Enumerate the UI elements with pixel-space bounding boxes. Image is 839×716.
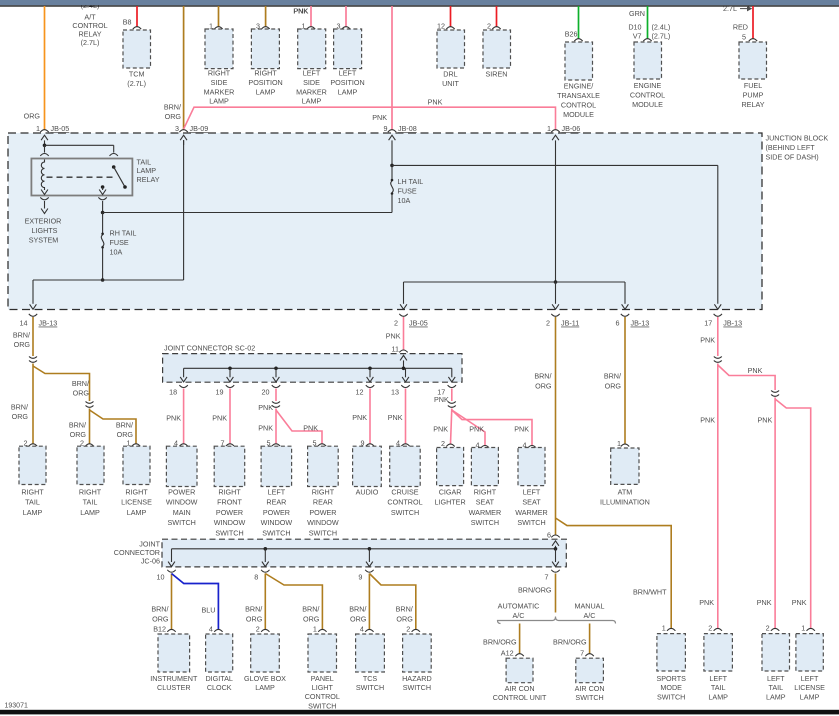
svg-text:A/C: A/C bbox=[584, 611, 596, 620]
wire GRN to engine/transaxle control module bbox=[565, 6, 579, 39]
wire BRN/ORG to instrument cluster bbox=[151, 574, 171, 630]
wire BRN/ORG tail lamp tree bbox=[11, 364, 90, 444]
junction block label bbox=[766, 134, 829, 162]
svg-text:PNK: PNK bbox=[294, 7, 309, 16]
siren box bbox=[483, 22, 511, 68]
SC-02 internal bus bbox=[184, 367, 452, 371]
svg-text:MARKER: MARKER bbox=[204, 87, 235, 96]
svg-text:TAIL: TAIL bbox=[25, 498, 40, 507]
wire PNK to left side marker lamp bbox=[293, 6, 311, 27]
engine control module box bbox=[634, 39, 662, 79]
svg-text:1: 1 bbox=[313, 624, 317, 633]
wire BRN/ORG from 6 JB-13 to ATM illumination bbox=[604, 317, 625, 444]
svg-text:ORG: ORG bbox=[246, 614, 263, 623]
svg-text:ORG: ORG bbox=[303, 614, 320, 623]
svg-text:JB-13: JB-13 bbox=[723, 319, 742, 328]
svg-text:LIGHT: LIGHT bbox=[312, 683, 334, 692]
wire PNK to left position lamp bbox=[345, 6, 347, 27]
relay dashed link bbox=[47, 176, 115, 178]
svg-text:2: 2 bbox=[256, 624, 260, 633]
svg-text:INSTRUMENT: INSTRUMENT bbox=[150, 674, 198, 683]
svg-text:PNK: PNK bbox=[166, 414, 181, 423]
exit 6 JB-13 bbox=[616, 304, 650, 327]
svg-text:RIGHT: RIGHT bbox=[21, 488, 44, 497]
svg-text:CONTROL: CONTROL bbox=[387, 498, 422, 507]
svg-text:ORG: ORG bbox=[350, 614, 367, 623]
wire PNK to right front power window switch bbox=[212, 389, 230, 444]
JC-06 output 9 bbox=[358, 549, 373, 582]
wire RED to TCM pin B8 bbox=[123, 6, 137, 27]
svg-text:AIR CON: AIR CON bbox=[575, 684, 605, 693]
right license lamp box bbox=[123, 439, 150, 485]
node 3 JB-09 bbox=[175, 124, 208, 145]
hazard switch box bbox=[403, 624, 432, 672]
svg-text:LICENSE: LICENSE bbox=[121, 498, 152, 507]
svg-text:JB-05: JB-05 bbox=[409, 319, 428, 328]
svg-text:(2.7L): (2.7L) bbox=[127, 79, 146, 88]
svg-text:PUMP: PUMP bbox=[743, 90, 764, 99]
svg-text:SWITCH: SWITCH bbox=[391, 508, 419, 517]
right tail lamp box 2 bbox=[77, 439, 104, 485]
svg-text:PNK: PNK bbox=[699, 598, 714, 607]
svg-text:POWER: POWER bbox=[168, 488, 195, 497]
svg-text:DIGITAL: DIGITAL bbox=[205, 674, 232, 683]
svg-text:ORG: ORG bbox=[117, 430, 134, 439]
wire PNK cigar lighter / seat warmer tree bbox=[433, 409, 532, 446]
svg-text:CONTROL: CONTROL bbox=[305, 692, 340, 701]
svg-text:JB-05: JB-05 bbox=[51, 124, 70, 133]
junction node to exits bbox=[33, 140, 184, 304]
right side marker lamp box bbox=[205, 22, 233, 69]
inline connector C4 bbox=[448, 402, 456, 404]
automatic / manual A/C labels bbox=[498, 602, 605, 621]
svg-text:BRN/ORG: BRN/ORG bbox=[518, 585, 552, 594]
svg-text:REAR: REAR bbox=[313, 498, 333, 507]
svg-text:BLU: BLU bbox=[202, 605, 216, 614]
svg-text:PNK: PNK bbox=[303, 423, 318, 432]
svg-text:LEFT: LEFT bbox=[268, 488, 286, 497]
svg-text:1: 1 bbox=[801, 623, 805, 632]
svg-text:(2.7L): (2.7L) bbox=[81, 38, 100, 47]
svg-text:ORG: ORG bbox=[70, 430, 87, 439]
svg-text:GLOVE BOX: GLOVE BOX bbox=[244, 674, 286, 683]
svg-text:SIREN: SIREN bbox=[486, 70, 508, 79]
svg-text:ORG: ORG bbox=[14, 340, 31, 349]
svg-text:PNK: PNK bbox=[433, 424, 448, 433]
svg-text:SEAT: SEAT bbox=[522, 498, 541, 507]
svg-text:8: 8 bbox=[254, 572, 258, 581]
tail lamp relay box bbox=[31, 159, 132, 196]
svg-text:SWITCH: SWITCH bbox=[168, 518, 196, 527]
right front power window switch box bbox=[214, 439, 245, 487]
svg-text:B26: B26 bbox=[565, 29, 578, 38]
LH tail fuse 10A bbox=[391, 177, 424, 213]
svg-text:LAMP: LAMP bbox=[338, 87, 358, 96]
svg-text:LAMP: LAMP bbox=[137, 166, 157, 175]
svg-text:DRL: DRL bbox=[443, 70, 457, 79]
svg-text:12: 12 bbox=[356, 387, 364, 396]
svg-text:PNK: PNK bbox=[434, 395, 449, 404]
left side marker lamp box bbox=[298, 22, 326, 69]
svg-text:LAMP: LAMP bbox=[80, 508, 100, 517]
JB-06 internal bus bbox=[404, 280, 626, 304]
svg-text:PNK: PNK bbox=[792, 598, 807, 607]
svg-text:9: 9 bbox=[384, 124, 388, 133]
JC-06 output 8 bbox=[254, 549, 269, 582]
exit 2 JB-11 bbox=[546, 304, 579, 327]
SC-02 output 18 bbox=[169, 368, 188, 396]
svg-text:LAMP: LAMP bbox=[255, 683, 275, 692]
left position lamp box bbox=[334, 22, 362, 69]
svg-text:PNK: PNK bbox=[757, 598, 772, 607]
svg-text:RIGHT: RIGHT bbox=[254, 69, 277, 78]
wire BRN/ORG to glove box lamp bbox=[245, 574, 265, 630]
svg-text:SIDE OF DASH): SIDE OF DASH) bbox=[766, 153, 819, 162]
svg-text:9: 9 bbox=[358, 572, 362, 581]
svg-text:PNK: PNK bbox=[388, 413, 403, 422]
svg-text:SWITCH: SWITCH bbox=[403, 683, 431, 692]
svg-text:PNK: PNK bbox=[352, 413, 367, 422]
svg-text:CLUSTER: CLUSTER bbox=[157, 683, 191, 692]
svg-text:(BEHIND LEFT: (BEHIND LEFT bbox=[766, 143, 816, 152]
svg-text:LAMP: LAMP bbox=[800, 692, 820, 701]
svg-text:1: 1 bbox=[36, 124, 40, 133]
wire BRN/WHT to sports mode switch bbox=[556, 518, 672, 628]
svg-text:TAIL: TAIL bbox=[768, 683, 783, 692]
svg-text:LAMP: LAMP bbox=[23, 508, 43, 517]
svg-text:SEAT: SEAT bbox=[476, 498, 495, 507]
relay switch contact bbox=[112, 165, 127, 189]
svg-text:LEFT: LEFT bbox=[339, 69, 357, 78]
svg-text:RELAY: RELAY bbox=[741, 100, 764, 109]
TCM connector box bbox=[123, 27, 151, 68]
svg-text:LH TAIL: LH TAIL bbox=[398, 177, 424, 186]
inline connector C2 bbox=[86, 402, 94, 404]
svg-text:6: 6 bbox=[616, 319, 620, 328]
svg-text:TAIL: TAIL bbox=[83, 498, 98, 507]
svg-text:ORG: ORG bbox=[165, 112, 182, 121]
svg-text:RIGHT: RIGHT bbox=[125, 488, 148, 497]
svg-text:ATM: ATM bbox=[618, 488, 633, 497]
svg-text:PNK: PNK bbox=[748, 366, 763, 375]
A/T CONTROL RELAY label bbox=[72, 1, 107, 47]
svg-text:3: 3 bbox=[175, 124, 179, 133]
right rear power window switch box bbox=[308, 439, 339, 487]
svg-text:1: 1 bbox=[547, 124, 551, 133]
wire PNK to rear power window switches bbox=[258, 409, 322, 444]
svg-text:ORG: ORG bbox=[396, 614, 413, 623]
svg-text:MODE: MODE bbox=[660, 683, 682, 692]
wire BRN/ORG to TCS switch bbox=[349, 574, 369, 630]
svg-text:2: 2 bbox=[546, 319, 550, 328]
svg-text:MODULE: MODULE bbox=[632, 100, 663, 109]
svg-text:CLOCK: CLOCK bbox=[207, 683, 232, 692]
svg-text:BRN/: BRN/ bbox=[11, 402, 28, 411]
svg-text:SIDE: SIDE bbox=[211, 78, 228, 87]
svg-text:LEFT: LEFT bbox=[801, 674, 819, 683]
svg-text:B8: B8 bbox=[123, 17, 132, 26]
svg-text:A12: A12 bbox=[501, 649, 514, 658]
inline connector C1 bbox=[29, 357, 37, 359]
left rear power window switch box bbox=[261, 439, 292, 487]
wire PNK to cruise control switch bbox=[388, 389, 406, 444]
svg-text:2: 2 bbox=[394, 319, 398, 328]
relay output pin bbox=[99, 185, 106, 194]
svg-text:2: 2 bbox=[487, 22, 491, 31]
svg-text:PNK: PNK bbox=[514, 424, 529, 433]
svg-text:LAMP: LAMP bbox=[302, 97, 322, 106]
svg-text:LAMP: LAMP bbox=[256, 87, 276, 96]
svg-text:RIGHT: RIGHT bbox=[218, 488, 241, 497]
JC-06 pin 6 entry bbox=[547, 531, 560, 549]
svg-text:ORG: ORG bbox=[24, 112, 41, 121]
svg-text:CIGAR: CIGAR bbox=[439, 488, 462, 497]
exit 17 JB-13 bbox=[704, 304, 742, 327]
wire PNK left tail lamp tree B bbox=[757, 398, 811, 629]
svg-text:13: 13 bbox=[391, 387, 399, 396]
svg-text:10: 10 bbox=[157, 572, 165, 581]
svg-text:POWER: POWER bbox=[216, 508, 243, 517]
svg-text:SYSTEM: SYSTEM bbox=[29, 235, 59, 244]
svg-text:2.7L: 2.7L bbox=[723, 4, 737, 13]
air con control unit box bbox=[501, 649, 533, 683]
left seat warmer switch box bbox=[518, 440, 545, 485]
svg-text:17: 17 bbox=[704, 319, 712, 328]
svg-text:BRN/: BRN/ bbox=[302, 604, 319, 613]
svg-text:JB-06: JB-06 bbox=[562, 124, 581, 133]
svg-text:6: 6 bbox=[547, 531, 551, 540]
svg-text:SIDE: SIDE bbox=[303, 78, 320, 87]
svg-text:5: 5 bbox=[742, 32, 746, 41]
svg-text:1: 1 bbox=[617, 439, 621, 448]
JC-06 output 7 bbox=[545, 549, 560, 582]
svg-text:PNK: PNK bbox=[258, 423, 273, 432]
svg-text:POWER: POWER bbox=[263, 508, 290, 517]
svg-text:LEFT: LEFT bbox=[767, 674, 785, 683]
joint connector JC-06 box bbox=[114, 539, 567, 567]
svg-text:LAMP: LAMP bbox=[708, 692, 728, 701]
svg-text:B12: B12 bbox=[153, 624, 166, 633]
digital clock box bbox=[206, 624, 233, 672]
top title bar bbox=[0, 0, 839, 5]
wire BRN/ORG from JC-06 pin 7 bbox=[518, 574, 556, 613]
svg-text:(2.4L): (2.4L) bbox=[652, 22, 671, 31]
left license lamp box bbox=[796, 623, 823, 671]
svg-text:BRN/: BRN/ bbox=[164, 103, 181, 112]
wire PNK left tail lamp tree A bbox=[699, 364, 775, 629]
relay switch output node bbox=[98, 197, 392, 233]
right tail lamp box 1 bbox=[19, 439, 46, 485]
svg-text:FUSE: FUSE bbox=[110, 238, 129, 247]
svg-text:POWER: POWER bbox=[309, 508, 336, 517]
svg-text:PNK: PNK bbox=[258, 403, 273, 412]
svg-text:BRN/: BRN/ bbox=[245, 604, 262, 613]
node JB-05 internal junction bbox=[40, 144, 118, 156]
wire BRN/ORG from 14 JB-13 bbox=[13, 317, 33, 356]
wire to 17 JB-13 exit bbox=[717, 165, 719, 303]
svg-text:JB-13: JB-13 bbox=[631, 319, 650, 328]
wire PNK from 2 JB-05 to SC-02 pin 11 bbox=[386, 317, 404, 353]
svg-text:4: 4 bbox=[360, 624, 364, 633]
svg-text:JB-13: JB-13 bbox=[39, 319, 58, 328]
svg-text:CONTROL UNIT: CONTROL UNIT bbox=[493, 693, 547, 702]
svg-text:LAMP: LAMP bbox=[766, 692, 786, 701]
svg-text:REAR: REAR bbox=[266, 498, 286, 507]
svg-text:20: 20 bbox=[262, 387, 270, 396]
wire BRN/ORG to air con switch bbox=[553, 624, 590, 654]
wire PNK bus from JB-09 to JB-06 bbox=[184, 7, 556, 131]
svg-text:18: 18 bbox=[169, 387, 177, 396]
wire BRN/ORG to hazard switch bbox=[369, 574, 415, 630]
exit 14 JB-13 bbox=[20, 304, 58, 327]
svg-text:MODULE: MODULE bbox=[563, 110, 594, 119]
wire BLU to digital clock bbox=[172, 574, 219, 630]
svg-text:AUTOMATIC: AUTOMATIC bbox=[498, 602, 540, 611]
svg-text:LAMP: LAMP bbox=[127, 508, 147, 517]
svg-text:RIGHT: RIGHT bbox=[312, 488, 335, 497]
svg-text:SWITCH: SWITCH bbox=[471, 518, 499, 527]
svg-text:193071: 193071 bbox=[5, 703, 28, 710]
svg-text:CONTROL: CONTROL bbox=[561, 101, 596, 110]
svg-text:LIGHTS: LIGHTS bbox=[32, 226, 58, 235]
SC-02 output 20 bbox=[262, 368, 281, 396]
left tail lamp box 1 bbox=[704, 623, 733, 671]
svg-text:BRN/WHT: BRN/WHT bbox=[633, 587, 667, 596]
svg-text:10A: 10A bbox=[398, 196, 411, 205]
svg-text:ORG: ORG bbox=[535, 381, 552, 390]
svg-text:UNIT: UNIT bbox=[442, 79, 459, 88]
svg-text:TCM: TCM bbox=[129, 70, 145, 79]
panel light control switch box bbox=[308, 624, 337, 672]
joint connector SC-02 box bbox=[163, 344, 462, 383]
svg-text:ENGINE: ENGINE bbox=[634, 81, 662, 90]
svg-text:(2.7L): (2.7L) bbox=[652, 32, 671, 41]
svg-text:EXTERIOR: EXTERIOR bbox=[25, 216, 62, 225]
svg-text:PNK: PNK bbox=[212, 414, 227, 423]
svg-text:MANUAL: MANUAL bbox=[575, 602, 605, 611]
JC-06 output 10 bbox=[157, 549, 176, 582]
svg-text:BRN/: BRN/ bbox=[116, 420, 133, 429]
wire GRN to engine control module bbox=[628, 6, 670, 41]
svg-text:2: 2 bbox=[766, 623, 770, 632]
svg-text:WARMER: WARMER bbox=[515, 508, 547, 517]
node 1 JB-05 bbox=[36, 124, 69, 145]
svg-text:2: 2 bbox=[406, 624, 410, 633]
svg-text:CONTROL: CONTROL bbox=[630, 90, 665, 99]
inline connector C3 bbox=[272, 402, 280, 404]
inline connector C6 bbox=[771, 391, 779, 393]
wire PNK pin 20 upper bbox=[258, 389, 276, 412]
power window main switch box bbox=[166, 439, 197, 487]
svg-text:LEFT: LEFT bbox=[709, 674, 727, 683]
svg-text:LIGHTER: LIGHTER bbox=[435, 498, 466, 507]
inline connector C5 bbox=[714, 357, 722, 359]
svg-text:LEFT: LEFT bbox=[523, 488, 541, 497]
svg-text:BRN/ORG: BRN/ORG bbox=[553, 637, 587, 646]
svg-text:FRONT: FRONT bbox=[217, 498, 242, 507]
svg-text:RED: RED bbox=[733, 22, 748, 31]
svg-text:LAMP: LAMP bbox=[209, 97, 229, 106]
svg-text:MARKER: MARKER bbox=[296, 87, 327, 96]
svg-text:BRN/: BRN/ bbox=[69, 420, 86, 429]
svg-text:WINDOW: WINDOW bbox=[166, 498, 198, 507]
wire PNK to JB-08 bbox=[372, 6, 392, 130]
svg-text:TRANSAXLE: TRANSAXLE bbox=[557, 91, 600, 100]
svg-text:BRN/: BRN/ bbox=[13, 330, 30, 339]
wire PNK pin 17 upper bbox=[434, 389, 452, 404]
svg-text:19: 19 bbox=[216, 387, 224, 396]
svg-text:A/C: A/C bbox=[513, 611, 525, 620]
svg-text:HAZARD: HAZARD bbox=[402, 674, 432, 683]
wire BRN to right side marker lamp bbox=[218, 6, 220, 27]
svg-text:PNK: PNK bbox=[469, 424, 484, 433]
wire PNK to power window main switch bbox=[166, 389, 183, 444]
svg-text:11: 11 bbox=[392, 344, 399, 353]
junction block (behind left side of dash) bbox=[8, 133, 762, 310]
relay coil bbox=[41, 160, 48, 195]
svg-text:POSITION: POSITION bbox=[248, 78, 282, 87]
svg-text:JOINT CONNECTOR SC-02: JOINT CONNECTOR SC-02 bbox=[164, 344, 255, 353]
wire RED to DRL unit bbox=[450, 6, 452, 27]
right position lamp box bbox=[251, 22, 279, 69]
A/C option bracket bbox=[498, 617, 616, 624]
SC-02 output 12 bbox=[356, 368, 375, 396]
svg-text:4: 4 bbox=[209, 624, 213, 633]
wire BRN to right position lamp bbox=[265, 6, 267, 27]
svg-text:SWITCH: SWITCH bbox=[356, 683, 384, 692]
SC-02 pin 11 entry bbox=[399, 350, 407, 368]
wire PNK to audio bbox=[352, 389, 370, 444]
svg-text:10A: 10A bbox=[110, 247, 123, 256]
svg-text:CRUISE: CRUISE bbox=[391, 488, 418, 497]
svg-text:RIGHT: RIGHT bbox=[79, 488, 102, 497]
svg-text:RIGHT: RIGHT bbox=[208, 69, 231, 78]
svg-text:BRN/: BRN/ bbox=[396, 604, 413, 613]
svg-text:2: 2 bbox=[441, 439, 445, 448]
bottom rule bar bbox=[0, 710, 839, 715]
wire BRN/ORG to JB-09 bbox=[164, 6, 184, 130]
svg-text:PNK: PNK bbox=[758, 415, 773, 424]
wire BRN/ORG to panel light control switch bbox=[265, 574, 322, 630]
relay coil output to exterior lights system bbox=[40, 197, 48, 213]
svg-text:SWITCH: SWITCH bbox=[262, 528, 290, 537]
svg-text:WARMER: WARMER bbox=[469, 508, 501, 517]
svg-text:JB-08: JB-08 bbox=[398, 124, 417, 133]
svg-text:LEFT: LEFT bbox=[303, 69, 321, 78]
fuel pump relay box bbox=[739, 39, 767, 79]
svg-text:WINDOW: WINDOW bbox=[307, 518, 339, 527]
DRL unit label bbox=[442, 70, 459, 89]
left tail lamp box 2 bbox=[762, 623, 790, 671]
svg-text:PNK: PNK bbox=[428, 98, 443, 107]
svg-text:PNK: PNK bbox=[386, 331, 401, 340]
svg-text:2: 2 bbox=[708, 623, 712, 632]
svg-text:BRN/: BRN/ bbox=[72, 379, 89, 388]
wire BRN/ORG to right tail lamp 2 bbox=[69, 409, 136, 444]
svg-text:1: 1 bbox=[662, 623, 666, 632]
TCM label bbox=[127, 70, 146, 89]
svg-text:JB-11: JB-11 bbox=[561, 319, 579, 328]
svg-text:RELAY: RELAY bbox=[137, 175, 160, 184]
svg-text:BRN/: BRN/ bbox=[349, 604, 366, 613]
svg-text:MAIN: MAIN bbox=[173, 508, 191, 517]
svg-text:TCS: TCS bbox=[363, 674, 378, 683]
svg-text:JB-09: JB-09 bbox=[190, 124, 209, 133]
sports mode switch box bbox=[657, 623, 686, 671]
svg-text:WINDOW: WINDOW bbox=[261, 518, 293, 527]
svg-text:ORG: ORG bbox=[605, 381, 622, 390]
wire ORG to JB-05 bbox=[24, 6, 45, 130]
